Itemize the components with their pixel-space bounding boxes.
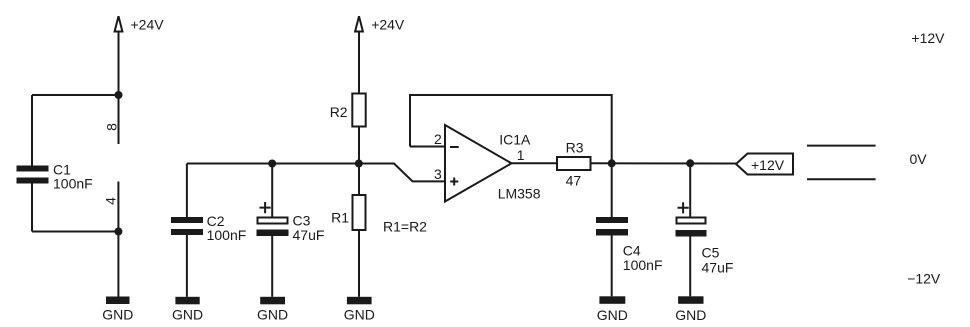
ground bar GND (C3) [260,297,285,305]
svg-text:3: 3 [434,166,442,182]
wire: C4 top lead [611,163,613,217]
C3 polarity plus mark [260,202,271,213]
wire: down to GND (left) [117,232,119,297]
wire: IC1 pin 4 power stub [117,182,119,232]
svg-text:−12V: −12V [907,271,941,287]
svg-text:IC1A: IC1A [499,132,531,148]
svg-text:47uF: 47uF [293,227,325,243]
wire: C4 bottom lead to GND [611,235,613,296]
net flag +12V outline [736,154,793,175]
wire: top-left horizontal to C1 [32,94,119,96]
power +24V arrow (R2 supply) [355,16,363,31]
svg-text:2: 2 [434,131,442,147]
svg-text:100nF: 100nF [207,227,247,243]
wire: supply rail C2 to node A [187,163,359,165]
0V reference line (upper) [807,145,876,147]
svg-text:R3: R3 [566,139,584,155]
svg-text:+12V: +12V [751,157,785,173]
wire: R3 to +12V flag [591,162,737,164]
capacitor C2 plates [171,217,203,223]
capacitor C5 negative plate [676,230,707,237]
svg-text:C5: C5 [702,245,720,261]
svg-text:GND: GND [597,307,628,323]
wire: C3 bottom lead to GND [271,236,273,297]
ground bar GND (R1) [347,297,372,305]
svg-text:GND: GND [257,307,288,323]
wire: C2 top lead [186,164,188,218]
wire: node A to op-amp pin 3 [359,164,445,182]
junction node: left supply / C1 top [115,91,123,99]
junction node: output / C4 / feedback [608,159,616,167]
wire: C1 top lead [31,95,33,166]
svg-text:+12V: +12V [911,30,945,46]
wire: C5 top lead [689,163,691,217]
svg-text:LM358: LM358 [498,186,541,202]
0V reference line (lower) [807,178,876,180]
power +24V arrow (left supply) [115,16,123,31]
ground bar GND (C2) [175,297,199,305]
capacitor C1 plates [17,166,49,172]
wire: left supply tail down to node [118,32,120,96]
wire: R2 bottom to node A [358,127,360,164]
resistor R2 body [352,94,365,127]
capacitor C3 positive plate (hollow) [258,218,288,224]
svg-text:47uF: 47uF [702,259,734,275]
wire: bottom-left horizontal from C1 [32,231,118,233]
svg-text:100nF: 100nF [623,257,663,273]
svg-text:0V: 0V [910,151,928,167]
svg-text:+24V: +24V [371,17,405,33]
ground bar GND (C1 branch) [106,297,130,305]
svg-text:GND: GND [344,307,375,323]
resistor R3 body [557,157,591,170]
svg-text:100nF: 100nF [53,175,93,191]
svg-text:R2: R2 [330,104,348,120]
wire: R1 bottom to GND [358,230,360,297]
junction node: C5 tap [686,159,694,167]
wire: IC1 pin 8 power stub [118,95,120,144]
svg-text:R1: R1 [331,210,349,226]
svg-text:+24V: +24V [131,17,165,33]
wire: C5 bottom lead to GND [689,236,691,296]
svg-text:4: 4 [103,197,119,205]
op-amp plus input mark [450,178,458,186]
ground bar GND (C4) [599,296,625,304]
C5 polarity plus mark [678,202,689,213]
wire: C3 top lead [271,164,273,218]
ground bar GND (C5) [678,296,703,304]
wire: op-amp output pin 1 to R3 [512,162,558,164]
svg-text:GND: GND [102,307,133,323]
op-amp minus input mark [450,146,459,148]
wire: feedback loop pin2 to output node [410,95,612,163]
wire: R2 supply tail [358,32,360,94]
svg-text:1: 1 [517,147,525,163]
wire: C2 bottom lead to GND [186,235,188,297]
junction node: C1 bottom / pin4 [114,228,122,236]
svg-text:R1=R2: R1=R2 [383,219,427,235]
capacitor C3 negative plate [257,230,289,237]
junction node: C3 on rail [268,160,276,168]
op-amp U IC1A triangle [445,125,512,202]
wire: node A to R1 top [358,164,360,196]
svg-text:GND: GND [172,307,203,323]
svg-text:8: 8 [104,123,120,131]
svg-text:GND: GND [675,307,706,323]
svg-text:47: 47 [566,173,582,189]
capacitor C5 positive plate (hollow) [677,218,706,224]
resistor R1 body [353,195,366,230]
capacitor C4 plates [596,217,628,223]
junction node A: R1/R2 divider [355,160,363,168]
wire: op-amp pin 2 lead [410,146,445,148]
wire: C1 bottom lead [31,184,33,232]
